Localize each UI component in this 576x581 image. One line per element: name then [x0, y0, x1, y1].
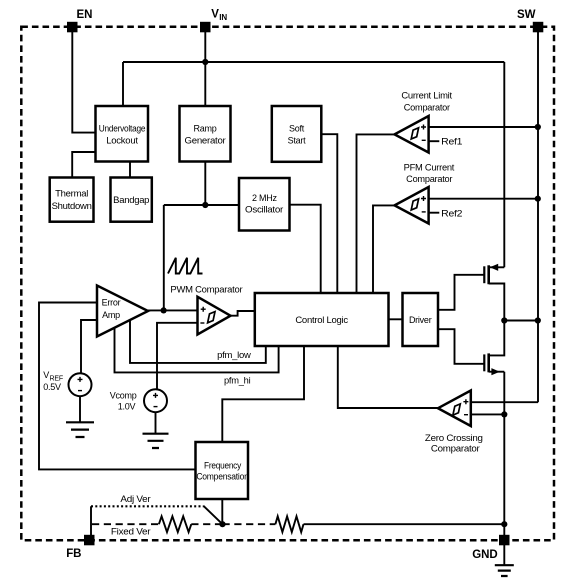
svg-text:Ref2: Ref2: [441, 208, 462, 218]
wire Fixed Ver dashed segment left: [92, 523, 159, 525]
svg-text:Compensation: Compensation: [196, 472, 249, 482]
op-amp Error Amp: [97, 286, 148, 337]
wire Current Limit Comparator output to Control Logic: [357, 134, 395, 293]
svg-text:Adj Ver: Adj Ver: [120, 494, 150, 504]
svg-text:Start: Start: [288, 136, 307, 146]
pin EN: [67, 9, 92, 32]
wire Soft Start output to Control Logic: [321, 134, 337, 293]
wire Vcomp to ground: [155, 413, 157, 433]
svg-text:Fixed Ver: Fixed Ver: [111, 527, 151, 537]
svg-text:pfm_hi: pfm_hi: [224, 376, 251, 386]
block Bandgap: [111, 178, 152, 222]
wire VREF to Error Amp bottom input: [81, 320, 97, 373]
wire FB pin vertical: [90, 506, 92, 535]
wire Control Logic to Frequency Compensation: [222, 346, 304, 442]
svg-text:1.0V: 1.0V: [118, 401, 136, 411]
wire VIN pin down to Ramp Generator: [204, 32, 206, 106]
wire 2MHz Oscillator output to Control Logic: [290, 205, 321, 293]
wire feedback to Error Amp top input: [39, 303, 196, 470]
wire Ref1 stub: [429, 140, 440, 142]
svg-text:Lockout: Lockout: [106, 136, 138, 146]
wire Zero Crossing Comparator plus input: [471, 401, 538, 403]
comparator Current Limit Comparator: [395, 91, 463, 153]
wire NMOS source down to GND node: [503, 372, 505, 525]
transistor Q2 NMOS low side: [484, 321, 504, 376]
svg-text:Amp: Amp: [102, 310, 120, 320]
node ramp junction: [202, 202, 208, 208]
wire GND pin to ground symbol: [503, 544, 505, 565]
pin SW: [517, 9, 543, 33]
svg-text:Comparator: Comparator: [404, 102, 450, 112]
wire pfm_low: [130, 320, 266, 363]
svg-text:FB: FB: [66, 548, 81, 560]
wire PWM comparator output to Control Logic: [230, 311, 255, 316]
svg-text:Oscillator: Oscillator: [245, 205, 283, 215]
wire dashed segment node to R2: [223, 523, 276, 525]
wire UVLO to Bandgap: [129, 162, 131, 178]
wire VIN rail down to PMOS source: [503, 62, 505, 267]
wire Zero Crossing Comparator output to Control Logic: [338, 346, 438, 408]
wire pfm_hi: [115, 328, 279, 373]
svg-text:GND: GND: [472, 549, 497, 561]
node GND junction: [501, 521, 507, 527]
wire Zero Crossing Comparator minus input: [471, 413, 505, 415]
wire ramp node to 2MHz Oscillator: [164, 204, 239, 206]
wire Current Limit Comparator plus input to SW net: [429, 126, 538, 128]
svg-text:Frequency: Frequency: [204, 461, 242, 471]
comparator Zero Crossing Comparator: [425, 391, 483, 454]
svg-text:Undervoltage: Undervoltage: [99, 123, 146, 133]
svg-text:Vcomp: Vcomp: [110, 391, 137, 401]
wire VIN rail to UVLO top: [122, 62, 124, 106]
ground symbol for VREF: [66, 422, 94, 437]
wire Driver to NMOS gate: [438, 329, 484, 364]
block Ramp Generator: [180, 106, 231, 162]
pin GND: [472, 535, 509, 561]
svg-text:PFM Current: PFM Current: [404, 162, 455, 172]
svg-text:Shutdown: Shutdown: [52, 201, 92, 211]
wire Error Amp output to PWM comparator plus input: [148, 309, 198, 311]
ground symbol for Vcomp: [143, 434, 169, 448]
block Control Logic: [255, 293, 389, 346]
voltage source VREF 0.5V: [43, 370, 91, 396]
svg-text:Generator: Generator: [185, 136, 226, 146]
svg-text:SW: SW: [517, 9, 536, 21]
resistor R1 fixed divider: [159, 516, 191, 532]
block Undervoltage Lockout: [96, 106, 149, 162]
wire UVLO to Thermal Shutdown: [72, 152, 95, 178]
wire R2 to GND node solid: [304, 523, 505, 525]
resistor R2 divider: [275, 516, 303, 532]
block Frequency Compensation: [196, 442, 249, 499]
wire ramp node down to PWM comparator input node: [163, 205, 165, 310]
wire Adj Ver dotted line: [91, 505, 203, 507]
node switch node left: [501, 317, 507, 323]
block 2 MHz Oscillator: [239, 178, 290, 231]
wire PFM Current Comparator plus input to SW net: [429, 198, 538, 200]
block Driver: [403, 293, 439, 346]
svg-text:Control Logic: Control Logic: [295, 315, 348, 325]
node switch node at SW net: [535, 317, 541, 323]
svg-text:Driver: Driver: [409, 315, 432, 325]
node feedback divider junction: [219, 521, 225, 527]
svg-text:Comparator: Comparator: [406, 174, 452, 184]
wire EN pin to UVLO: [72, 32, 95, 133]
svg-text:Ramp: Ramp: [193, 123, 216, 133]
node Zero Crossing minus tap: [501, 411, 507, 417]
wire Ramp Generator output: [204, 162, 206, 206]
svg-text:2 MHz: 2 MHz: [252, 193, 278, 203]
wire Frequency Compensation output down to feedback node: [221, 499, 223, 524]
svg-text:Ref1: Ref1: [441, 136, 462, 146]
svg-text:EN: EN: [77, 9, 93, 21]
comparator PWM Comparator: [170, 285, 242, 335]
wire SW net vertical: [537, 32, 539, 402]
svg-text:Comparator: Comparator: [431, 444, 480, 454]
voltage source Vcomp 1.0V: [110, 389, 167, 412]
pin VIN: [200, 8, 227, 32]
node Error Amp output junction: [161, 307, 167, 313]
wire PWM comparator minus input to Vcomp: [157, 323, 198, 389]
transistor Q1 PMOS high side: [484, 264, 504, 321]
wire switch node to SW net: [504, 320, 538, 322]
svg-text:0.5V: 0.5V: [43, 382, 61, 392]
wire GND node to GND pin: [503, 524, 505, 536]
block Soft Start: [272, 106, 322, 162]
ramp sawtooth waveform icon: [168, 258, 203, 274]
node VIN rail junction: [202, 59, 208, 65]
wire Driver to PMOS gate: [438, 275, 484, 310]
svg-text:Zero Crossing: Zero Crossing: [425, 433, 483, 443]
wire Ref2 stub: [429, 212, 440, 214]
wire VIN rail horizontal: [123, 61, 504, 63]
wire Fixed Ver dashed segment middle: [191, 523, 222, 525]
node SW net at PFM input: [535, 196, 541, 202]
ground symbol at GND pin: [495, 565, 514, 576]
svg-text:Soft: Soft: [289, 123, 305, 133]
svg-text:Bandgap: Bandgap: [113, 195, 149, 205]
wire VREF to ground: [79, 397, 81, 422]
wire adjustable version switch diagonal: [203, 506, 222, 524]
svg-text:V: V: [211, 8, 219, 20]
svg-text:PWM Comparator: PWM Comparator: [170, 285, 242, 295]
node SW net at Current Limit input: [535, 124, 541, 130]
svg-text:pfm_low: pfm_low: [217, 350, 251, 360]
svg-text:IN: IN: [219, 13, 227, 22]
comparator PFM Current Comparator: [395, 162, 463, 223]
block Thermal Shutdown: [50, 178, 94, 222]
wire Control Logic to Driver: [389, 318, 403, 320]
svg-text:Error: Error: [102, 298, 121, 308]
pin FB: [66, 535, 94, 560]
svg-text:Current Limit: Current Limit: [401, 91, 452, 101]
svg-text:V: V: [43, 370, 49, 380]
svg-text:Thermal: Thermal: [55, 189, 88, 199]
wire PFM Current Comparator output to Control Logic: [373, 205, 395, 293]
